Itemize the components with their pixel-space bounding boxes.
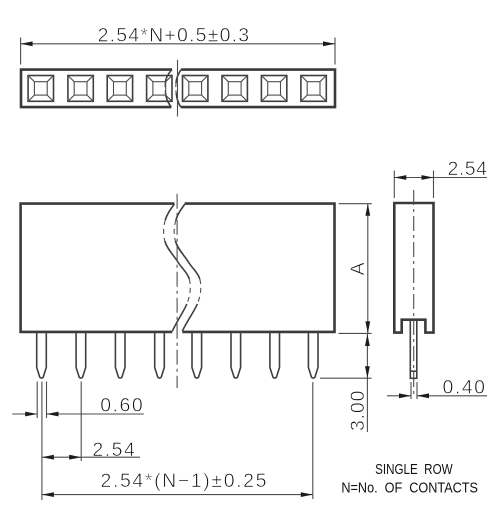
socket 5 [183, 76, 208, 102]
dimension 3.00 arrows [365, 334, 370, 346]
dimension A extension lines [339, 204, 372, 334]
socket 1 [28, 76, 53, 102]
socket 2 [68, 76, 93, 102]
top view body right break edge [176, 69, 181, 83]
dimension 0.60 line [12, 413, 144, 415]
top view body left break edge [165, 69, 172, 83]
socket 4 [147, 76, 172, 102]
dimension 2.54 (side) arrows [394, 175, 406, 180]
front view body right piece [182, 204, 334, 332]
dimension A arrows [365, 204, 370, 216]
svg-text:0.60: 0.60 [100, 394, 143, 416]
dimension 0.60 arrows [25, 412, 37, 417]
socket 7 [261, 76, 286, 102]
extension line pin 1 center [41, 382, 43, 501]
pin 2 [76, 332, 86, 378]
front view centerline [176, 194, 178, 388]
dimension 2.54*(N-1)±0.25 arrows [42, 492, 54, 497]
svg-text:2.54*(N−1)±0.25: 2.54*(N−1)±0.25 [101, 470, 267, 492]
top view body left piece [21, 70, 172, 108]
dimension 0.40 line [387, 395, 487, 397]
socket 8 [301, 76, 326, 102]
svg-text:2.54: 2.54 [92, 439, 135, 461]
dimension 2.54 (side) line [394, 177, 487, 179]
dimension 2.54 (side) extension lines [394, 171, 433, 199]
side view pin [410, 320, 417, 379]
pin 1 [37, 332, 47, 378]
socket 3 [107, 76, 132, 102]
dimension 2.54*(N-1)±0.25 line [42, 494, 313, 496]
dimension 2.54 arrows [42, 455, 54, 460]
pin 4 [155, 332, 165, 378]
top view: dimension line [21, 38, 335, 65]
pin 3 [115, 332, 125, 378]
top view: dimension arrow left [21, 41, 33, 46]
extension line pin 2 center [80, 382, 82, 462]
top view body right piece [181, 70, 335, 108]
svg-text:N=No. OF CONTACTS: N=No. OF CONTACTS [341, 481, 478, 497]
extension line pin 8 center [312, 382, 314, 499]
svg-text:3.00: 3.00 [347, 390, 369, 431]
svg-text:2.54: 2.54 [448, 158, 488, 180]
side view centerline [413, 190, 415, 397]
socket 6 [222, 76, 247, 102]
pin 7 [270, 332, 280, 378]
front view break S-curve right [176, 204, 185, 220]
dimension 0.60 extension lines [37, 382, 46, 419]
dimension 0.40 arrows [399, 393, 411, 398]
dimension 0.40 extension lines [411, 382, 417, 399]
svg-text:A: A [347, 262, 369, 275]
pin 6 [231, 332, 241, 378]
pin 8 [308, 332, 318, 378]
top view: dimension arrow right [323, 41, 335, 46]
dimension 2.54 line [42, 456, 140, 458]
pin 5 [192, 332, 202, 378]
svg-text:0.40: 0.40 [443, 377, 486, 399]
dimension 3.00 extension line at pin tip [320, 377, 372, 379]
top view break line [177, 60, 179, 117]
dimension 3.00 line [366, 333, 368, 432]
front view break S-curve left [165, 204, 174, 220]
svg-text:SINGLE ROW: SINGLE ROW [375, 462, 453, 478]
svg-text:2.54*N+0.5±0.3: 2.54*N+0.5±0.3 [98, 24, 250, 46]
front view body left piece [21, 204, 175, 332]
side view body [394, 203, 433, 333]
side view pin tip box [410, 370, 417, 372]
dimension A line [367, 204, 369, 334]
